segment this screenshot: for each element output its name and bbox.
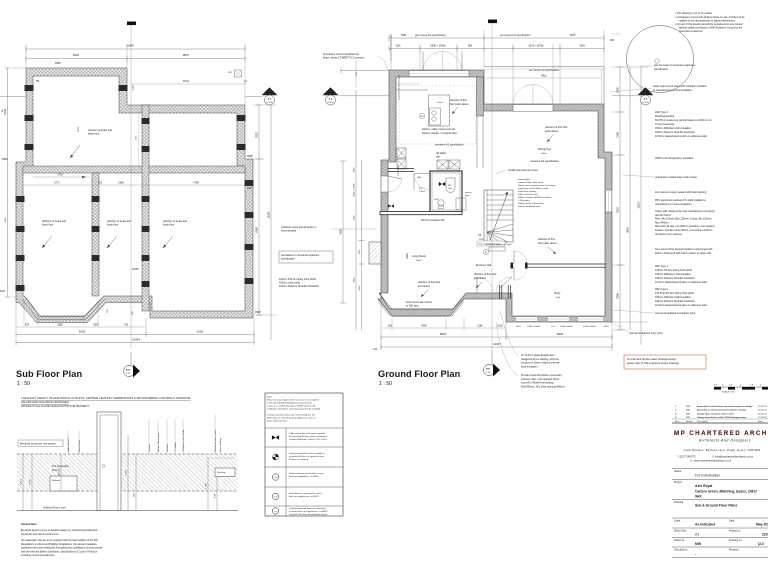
- svg-text:to S/E spec: to S/E spec: [406, 305, 420, 308]
- svg-text:2570 x 2100h: 2570 x 2100h: [528, 45, 544, 48]
- svg-text:contractor and clients prefere: contractor and clients preferences: [21, 533, 59, 536]
- svg-text:1115: 1115: [516, 326, 521, 328]
- svg-text:joist above: joist above: [473, 277, 487, 280]
- wall type 3 note: [655, 111, 712, 138]
- svg-text:2931: 2931: [93, 324, 99, 327]
- svg-text:1mF: 1mF: [448, 188, 453, 190]
- svg-text:unless in a combination with a: unless in a combination with a full MV s…: [267, 405, 316, 408]
- svg-text:Internet broadband entry point: Internet broadband entry point: [629, 332, 663, 335]
- sub floor plan title: [16, 369, 83, 387]
- svg-text:specification: specification: [281, 258, 295, 261]
- kitchen lower units crossed: [437, 160, 460, 169]
- room note: bottom-right beam direction: [163, 220, 188, 248]
- svg-text:3916: 3916: [354, 277, 356, 283]
- electrical consumer unit label: [18, 440, 63, 447]
- svg-text:Smoke detector connected in se: Smoke detector connected in series: [289, 472, 325, 475]
- orange pool drainage note box: [624, 355, 706, 369]
- svg-text:door: door: [465, 194, 470, 197]
- svg-text:above skirting: above skirting: [219, 438, 222, 452]
- svg-text:encased in 15mm unfaced intern: encased in 15mm unfaced internal: [521, 362, 560, 365]
- svg-text:Study: Study: [554, 292, 561, 295]
- svg-text:450 min: 450 min: [59, 467, 61, 476]
- svg-text:12.5mm plasterboard & skim on: 12.5mm plasterboard & skim on adhesive d…: [655, 281, 708, 284]
- svg-text:Architects And Designers: Architects And Designers: [698, 439, 751, 443]
- vertical dim 7638 between plans: [340, 161, 347, 303]
- svg-text:Great Bardens, Bardens Lane, O: Great Bardens, Bardens Lane, Ongar, Esse…: [684, 449, 761, 452]
- svg-text:with the relevant British Stan: with the relevant British Standards, Spe…: [21, 550, 98, 553]
- kitchen west dim line: [341, 68, 389, 77]
- section A-A line stub (sub left): [0, 96, 26, 112]
- dpc cavity closer note: [623, 175, 697, 179]
- broadband termination note: [612, 310, 696, 315]
- living room label: [412, 255, 426, 262]
- svg-text:1.20kg dpm: 1.20kg dpm: [518, 200, 530, 202]
- svg-text:4706: 4706: [193, 182, 199, 185]
- svg-text:Provide Suds threshold to seco: Provide Suds threshold to secondary: [521, 374, 563, 377]
- svg-text:4923 x 2 BCh: 4923 x 2 BCh: [354, 183, 356, 197]
- svg-text:Rise: Min 150mm Max 220mm, Goi: Rise: Min 150mm Max 220mm, Going: Min 22…: [655, 218, 711, 221]
- room note: bottom-left beam direction: [42, 220, 67, 248]
- cupboard under stairs: [456, 191, 472, 210]
- svg-text:block floor: block floor: [42, 224, 54, 227]
- svg-text:bathrooms as only full ducting: bathrooms as only full ducting appliance…: [267, 417, 317, 420]
- svg-text:1217: 1217: [359, 249, 361, 255]
- sub plan dim 1021: [131, 79, 245, 90]
- svg-text:Garage floor removed, refer to: Garage floor removed, refer to 10-9: [697, 412, 734, 415]
- svg-text:contact (Bathroom 15l/sec), WC: contact (Bathroom 15l/sec), WC: 6 l/s/s: [289, 438, 328, 441]
- svg-text:150mm beam & block floor: 150mm beam & block floor: [518, 202, 544, 205]
- svg-text:1021: 1021: [183, 79, 190, 83]
- svg-text:For Pool and Surface water dra: For Pool and Surface water drainage desi…: [627, 358, 677, 361]
- svg-text:142: 142: [373, 348, 378, 351]
- svg-text:in series back-up supplied acc: in series back-up supplied acc. to BS25.: [289, 510, 328, 513]
- external chimney breast: [369, 242, 381, 264]
- general note: [21, 523, 103, 557]
- legend row 2: ceiling fan: [272, 452, 325, 461]
- svg-text:4110: 4110: [604, 326, 609, 328]
- status row: [672, 469, 768, 478]
- vertical dim column x355: [354, 90, 357, 330]
- stairs: [478, 190, 513, 242]
- svg-text:2-16: 2-16: [486, 372, 491, 374]
- legend row 1: extract fan: [272, 432, 328, 441]
- svg-text:recesses b/2 specification: recesses b/2 specification: [398, 74, 401, 100]
- svg-text:Status: Status: [674, 470, 682, 473]
- svg-text:General Note: General Note: [21, 523, 37, 526]
- svg-text:185mm Celotex JR4000 insulatio: 185mm Celotex JR4000 insulation: [518, 196, 552, 199]
- svg-text:in the latest Building Regulat: in the latest Building Regulations requi…: [267, 402, 313, 405]
- svg-text:Revision: Revision: [729, 549, 739, 552]
- svg-text:5661: 5661: [401, 34, 407, 37]
- kitchen joist direction: [450, 99, 469, 114]
- note: foundations box: [279, 251, 333, 263]
- svg-text:2165: 2165: [5, 217, 7, 223]
- svg-text:Project no: Project no: [729, 530, 741, 533]
- svg-text:Weatherboarding: Weatherboarding: [655, 115, 675, 118]
- gas line beam note: [640, 64, 696, 71]
- note: proprietary steel beam (top): [323, 53, 388, 70]
- svg-text:150mm Diffutherm ED insulation: 150mm Diffutherm ED insulation: [655, 127, 692, 130]
- finished floor level line: [17, 507, 238, 511]
- section A-A line stub (ground left): [338, 95, 389, 97]
- kitchen counter: [396, 84, 428, 90]
- svg-text:2146: 2146: [354, 215, 356, 221]
- project row: [672, 480, 768, 499]
- section B-B line through sub plan: [127, 22, 136, 349]
- svg-text:manufacturers recommendations: manufacturers recommendations: [655, 203, 692, 206]
- svg-text:Date: Date: [729, 520, 735, 523]
- WC room walls: [430, 171, 462, 212]
- svg-text:RWP: RWP: [255, 311, 261, 314]
- worktop box: [207, 458, 235, 477]
- svg-text:9HX: 9HX: [695, 495, 702, 499]
- svg-text:1413: 1413: [133, 84, 135, 90]
- svg-text:50x75mm treated sw vertical ba: 50x75mm treated sw vertical battens at 6…: [655, 119, 712, 122]
- svg-text:B-B: B-B: [126, 370, 130, 372]
- svg-text:E: info@mpcharteredarchitects.: E: info@mpcharteredarchitects.co.uk: [712, 456, 754, 459]
- svg-text:pocket: pocket: [465, 191, 472, 194]
- svg-text:Entry Phone: Entry Phone: [78, 439, 81, 452]
- internet broadband entry point note: [612, 322, 663, 335]
- svg-text:to manufacturers recommendatio: to manufacturers recommendations: [653, 89, 693, 92]
- svg-text:100m extract fan to be by be c: 100m extract fan to be by be capable: [289, 432, 326, 435]
- svg-text:2700: 2700: [57, 174, 63, 177]
- kitchen notes: [422, 128, 464, 159]
- svg-text:9876: 9876: [183, 53, 190, 57]
- ground floor plan title: [378, 369, 461, 387]
- svg-text:1240 x 1050h: 1240 x 1050h: [527, 326, 541, 328]
- legend row 3: smoke detector: [272, 472, 324, 480]
- svg-text:TV outlets: TV outlets: [174, 441, 177, 452]
- svg-text:with AD Part K: with AD Part K: [655, 214, 671, 217]
- sub plan dimension 9216 / 9876: [26, 53, 245, 62]
- svg-text:5126: 5126: [197, 330, 204, 334]
- svg-text:Heat detector connected in ser: Heat detector connected in series: [289, 492, 322, 495]
- extension lines: sub plan: [12, 44, 276, 343]
- svg-text:2945: 2945: [617, 87, 620, 93]
- svg-text:A-A: A-A: [644, 98, 648, 101]
- MP chartered architects heading: [674, 430, 768, 443]
- ground floor outer walls: [378, 70, 612, 322]
- svg-text:2640 x 2100h: 2640 x 2100h: [430, 45, 446, 48]
- svg-text:Drawing: Drawing: [674, 501, 684, 504]
- svg-text:TB: TB: [36, 80, 40, 83]
- svg-text:Scale: Scale: [674, 520, 681, 523]
- svg-text:nominal 18mm floor finish: nominal 18mm floor finish: [518, 181, 544, 184]
- svg-text:500a cellecting level: 500a cellecting level: [518, 193, 538, 196]
- svg-text:1240x 1050h: 1240x 1050h: [560, 326, 573, 328]
- svg-text:Light switches: Light switches: [67, 437, 70, 452]
- svg-text:5518: 5518: [617, 207, 620, 213]
- entrance hall label: [476, 264, 491, 267]
- svg-text:SVP: SVP: [0, 290, 5, 293]
- svg-text:(2-0: (2-0: [758, 542, 764, 546]
- svg-text:Drawing no.: Drawing no.: [729, 539, 743, 542]
- svg-text:(2-15): (2-15): [643, 102, 649, 104]
- WC fixtures: [434, 178, 455, 209]
- svg-text:entrance door. max upstand 15m: entrance door. max upstand 15mm: [521, 378, 560, 381]
- svg-text:1 200: 1 200: [126, 469, 128, 475]
- WC label: [419, 188, 445, 222]
- sub floor interior spine wall (horizontal): [23, 166, 245, 173]
- svg-text:2622: 2622: [479, 239, 485, 241]
- svg-text:please refer to TnD engineers: please refer to TnD engineers design dra…: [627, 362, 680, 365]
- scale/date row: [672, 518, 768, 527]
- hall radiator: [486, 243, 513, 251]
- study joists direction: [538, 238, 557, 254]
- svg-text:Entrance radiator b/2 spec: Entrance radiator b/2 spec: [486, 243, 513, 246]
- svg-text:WC: WC: [419, 188, 423, 190]
- svg-text:wool insulation: wool insulation: [521, 365, 538, 368]
- svg-text:Sockets: Sockets: [148, 443, 151, 452]
- svg-text:Located 1-3m from the potentia: Located 1-3m from the potential source: [289, 513, 328, 516]
- svg-text:15-05-23: 15-05-23: [758, 406, 768, 408]
- study label: [554, 292, 561, 299]
- svg-text:Indoor stair designed by stair: Indoor stair designed by stair manufactu…: [655, 210, 715, 213]
- kitchen tall units: [397, 148, 406, 169]
- svg-text:190mm Plasmor Stranlite blockw: 190mm Plasmor Stranlite blockwork: [655, 300, 696, 303]
- svg-text:2946: 2946: [617, 293, 620, 299]
- svg-text:joists above: joists above: [544, 130, 559, 133]
- ground floor dimensions top: [389, 34, 484, 41]
- svg-text:Sub & Ground Floor Plans: Sub & Ground Floor Plans: [695, 504, 737, 508]
- sub plan interior dimension row: [23, 182, 245, 186]
- svg-text:Amended to reflect structural: Amended to reflect structural engineers …: [697, 409, 747, 412]
- svg-text:12054: 12054: [132, 338, 140, 342]
- drawing row: [672, 500, 768, 508]
- entrance vestibule jambs: [500, 285, 511, 299]
- legend row 5: CO detector: [272, 507, 328, 516]
- svg-text:1025: 1025: [497, 325, 503, 328]
- svg-text:Electrical meter socket: Electrical meter socket: [214, 430, 217, 452]
- svg-text:RWP: RWP: [2, 158, 8, 161]
- header note text: [21, 396, 190, 408]
- svg-text:Wall Type 1: Wall Type 1: [655, 265, 669, 268]
- svg-text:1 946: 1 946: [206, 482, 208, 488]
- svg-text:2822: 2822: [256, 132, 259, 138]
- svg-text:beam, above ST BRETTS Connecto: beam, above ST BRETTS Connector: [323, 57, 364, 60]
- svg-text:RWP: RWP: [247, 155, 253, 158]
- svg-text:900x900mm. Min clear opening 9: 900x900mm. Min clear opening 900mm: [521, 385, 565, 388]
- extension lines: ground floor top: [356, 30, 620, 104]
- legend grid lines: [265, 428, 343, 516]
- svg-text:1240x 1050h: 1240x 1050h: [583, 326, 596, 328]
- lobby/WC bottom wall: [380, 212, 462, 215]
- svg-text:14.95: 14.95: [30, 478, 32, 484]
- svg-text:including current amendments: including current amendments: [21, 554, 55, 557]
- svg-text:HD: HD: [420, 116, 424, 118]
- svg-text:19m2: 19m2: [541, 153, 547, 155]
- svg-text:3771: 3771: [54, 182, 60, 185]
- extension lines: ground floor right/bottom: [381, 67, 648, 350]
- svg-text:7638: 7638: [340, 229, 343, 235]
- ground floor bottom dimensions: [381, 325, 506, 329]
- svg-text:13023: 13023: [638, 201, 641, 209]
- section B-B diamond marker (ground): [484, 350, 501, 377]
- svg-text:PPC aluminium windows P/L 1022: PPC aluminium windows P/L 1022 installed…: [655, 199, 706, 202]
- svg-text:Wall Type 2: Wall Type 2: [655, 288, 669, 291]
- svg-text:1025: 1025: [434, 199, 440, 201]
- svg-text:Date: Date: [758, 420, 763, 423]
- svg-text:• This drawing is not to be s: • This drawing is not to be scaled.: [675, 12, 713, 15]
- svg-text:1151: 1151: [395, 45, 401, 48]
- svg-text:11035: 11035: [132, 268, 139, 271]
- sub plan misc labels: [0, 62, 261, 314]
- svg-text:max fall 1.40mill level landin: max fall 1.40mill level landing: [521, 382, 554, 385]
- sub floor sleeper piers (dark blocks): [16, 85, 254, 291]
- section A-A marker right of sub plan: [262, 88, 277, 106]
- drawn by row: [672, 538, 768, 547]
- svg-text:100mm blockwork with 13mm plas: 100mm blockwork with 13mm plaster to eit…: [655, 252, 712, 255]
- svg-text:Max pitch 42 deg, min 900mm gu: Max pitch 42 deg, min 900mm guarding, ma…: [655, 225, 715, 228]
- svg-text:Extract fans & window trickle: Extract fans & window trickle vents are …: [267, 399, 319, 402]
- svg-text:dia sphere from passing: dia sphere from passing: [655, 233, 682, 236]
- svg-text:W: www.mpcharteredarchitects.c: W: www.mpcharteredarchitects.co.uk: [690, 460, 732, 463]
- svg-text:pier: pier: [436, 156, 440, 159]
- svg-text:block floor: block floor: [107, 224, 119, 227]
- study door swing (double action): [514, 251, 527, 280]
- room note: bottom-middle beam direction: [107, 220, 132, 248]
- interior grid line with label (sub): [136, 113, 139, 166]
- wall type 1 note: [655, 265, 708, 284]
- rotated label along grid line x393: [390, 33, 393, 60]
- stair flight note: [477, 241, 505, 246]
- svg-text:joist above: joist above: [417, 285, 431, 288]
- svg-text:Tyvek housewrap: Tyvek housewrap: [655, 123, 675, 126]
- svg-text:2-16: 2-16: [126, 373, 131, 375]
- vertical text along kitchen left wall: [398, 74, 401, 100]
- hall/study dividing wall: [511, 263, 607, 269]
- sub plan top dimension line 11054: [26, 44, 245, 53]
- mastic sealant note: [655, 191, 707, 194]
- svg-text:A-A: A-A: [268, 98, 272, 101]
- hd circle: [419, 113, 424, 118]
- bay window glazing (ground floor bay): [378, 293, 466, 317]
- svg-text:Regulations in effect and Buil: Regulations in effect and Building Regul…: [21, 543, 97, 546]
- svg-text:recesses b/2 specification: recesses b/2 specification: [435, 144, 464, 147]
- svg-text:Ground Floor Plan: Ground Floor Plan: [378, 369, 461, 379]
- svg-text:Axis Royal: Axis Royal: [695, 484, 712, 488]
- svg-text:1.9m2: 1.9m2: [419, 191, 426, 193]
- svg-text:All residential units are to b: All residential units are to be supplied…: [21, 539, 98, 542]
- svg-text:proprietary insulated dpc cavi: proprietary insulated dpc cavity closer: [655, 176, 697, 179]
- svg-text:back-up supplied acc. to BS25: back-up supplied acc. to BS25: [289, 475, 319, 478]
- svg-text:900: 900: [468, 45, 473, 48]
- lobby top wall segments: [388, 164, 414, 176]
- svg-text:direction of first floor: direction of first floor: [545, 126, 568, 129]
- svg-text:B-B: B-B: [486, 369, 490, 371]
- svg-text:1 : 50: 1 : 50: [379, 381, 392, 387]
- svg-text:proprietary self levelling scr: proprietary self levelling screed: [518, 187, 549, 190]
- svg-text:direction of first: direction of first: [538, 238, 555, 241]
- svg-text:low modulus mastic sealant wit: low modulus mastic sealant with foam bac…: [655, 191, 707, 194]
- door frame in section: [97, 412, 121, 511]
- note: letterbox vents: [281, 226, 376, 233]
- recess edge lines (top right canopy): [484, 67, 604, 105]
- column detail symbol: [228, 70, 248, 83]
- svg-text:good was created for.: good was created for.: [679, 30, 703, 33]
- svg-text:cettal style French doors with: cettal style French doors with sidelight…: [653, 85, 707, 88]
- svg-text:215mm P2.1FL facing brick plin: 215mm P2.1FL facing brick plinth: [655, 269, 693, 272]
- kitchen top wall window opening: [409, 52, 469, 77]
- svg-text:Internet broadband termination: Internet broadband termination point: [655, 312, 696, 315]
- svg-text:Electrical Consumer unit secti: Electrical Consumer unit section: [20, 443, 56, 446]
- svg-text:Ground floor:: Ground floor:: [518, 178, 531, 181]
- svg-text:UP: UP: [478, 234, 482, 237]
- svg-text:Sockets: Sockets: [166, 443, 169, 452]
- svg-text:150mm Diffutherm ED insulation: 150mm Diffutherm ED insulation: [655, 273, 692, 276]
- svg-text:WC: WC: [448, 185, 452, 187]
- legend row 4: heat detector: [272, 492, 322, 500]
- svg-text:kitchen / utility movements tb: kitchen / utility movements tbc: [422, 128, 456, 131]
- radiator box: [50, 476, 77, 491]
- svg-text:A-A: A-A: [329, 98, 333, 101]
- svg-text:Max 345mm: Max 345mm: [655, 221, 669, 224]
- sub plan left dimension line 4140: [3, 68, 11, 297]
- left wall door opening + swing: [381, 176, 402, 192]
- svg-text:Entrance Hall: Entrance Hall: [476, 264, 491, 267]
- svg-text:Phone, Thermostat: Phone, Thermostat: [157, 433, 160, 452]
- svg-text:New ground floor internal part: New ground floor internal partitions con…: [655, 248, 713, 251]
- svg-text:60 litres of seekend: 60 litres of seekend: [289, 458, 309, 461]
- svg-text:102.5mm P2.1FL facing brick pl: 102.5mm P2.1FL facing brick plinth: [655, 292, 695, 295]
- ground floor left dimension line: [359, 160, 410, 330]
- svg-text:6075: 6075: [570, 34, 576, 37]
- svg-text:Checked by: Checked by: [674, 549, 688, 552]
- plasterboard note with leader: [500, 310, 560, 368]
- top-right disclaimer bullets: [675, 12, 745, 33]
- svg-text:4116: 4116: [406, 253, 409, 259]
- svg-text:staggered at our Metting, w/p/: staggered at our Metting, w/p/b be: [521, 358, 560, 361]
- svg-text:Part M compliant WC: Part M compliant WC: [421, 219, 445, 222]
- svg-text:block floor: block floor: [88, 133, 100, 136]
- svg-text:9278: 9278: [78, 126, 80, 132]
- bottom right window band openings: [516, 316, 603, 321]
- address lines: [677, 449, 760, 463]
- svg-text:gas recess b/2 specification: gas recess b/2 specification: [415, 34, 446, 37]
- svg-text:Project: Project: [674, 481, 682, 484]
- sub floor interior wall A (vertical left): [92, 173, 99, 296]
- revision table: [672, 405, 768, 423]
- svg-text:external walls: external walls: [281, 230, 297, 233]
- svg-text:ASHP to be designed by special: ASHP to be designed by specialist: [655, 157, 693, 160]
- svg-text:equipment and work employed th: equipment and work employed throughout t…: [21, 547, 103, 550]
- svg-text:Drawn by: Drawn by: [674, 539, 685, 542]
- svg-text:190mm Plasmor Stranlite blockw: 190mm Plasmor Stranlite blockwork: [655, 277, 696, 280]
- sub floor interior wall B (vertical centre): [142, 105, 149, 311]
- svg-text:718: 718: [124, 324, 129, 327]
- entrance door swings: [477, 277, 512, 293]
- dining top wall french door opening: [513, 85, 553, 112]
- svg-text:A1: A1: [695, 533, 699, 537]
- svg-text:Wall Type 3: Wall Type 3: [655, 111, 669, 114]
- svg-text:of extracting 30 litres when t: of extracting 30 litres when to minimum: [289, 435, 327, 438]
- svg-text:M&C: M&C: [417, 177, 422, 179]
- dining area labels: [530, 126, 568, 163]
- svg-text:10-05-23: 10-05-23: [758, 410, 768, 412]
- sub plan bottom dimensions: [16, 309, 146, 327]
- svg-text:Garage amended to reflect 1102: Garage amended to reflect 1102 drainage …: [697, 416, 747, 419]
- accessible zone label: [52, 465, 69, 472]
- svg-text:M: M: [485, 252, 487, 254]
- svg-text:-: -: [695, 552, 696, 556]
- svg-text:MP CHARTERED ARCHITECTS: MP CHARTERED ARCHITECTS: [674, 430, 768, 437]
- extract fan bowtie left wall: [388, 204, 394, 208]
- svg-text:SVP: SVP: [247, 187, 252, 190]
- kitchen island: [429, 95, 450, 126]
- svg-text:453: 453: [610, 39, 615, 42]
- svg-text:Ceiling mounted fan to be capa: Ceiling mounted fan to be capable of: [289, 452, 325, 455]
